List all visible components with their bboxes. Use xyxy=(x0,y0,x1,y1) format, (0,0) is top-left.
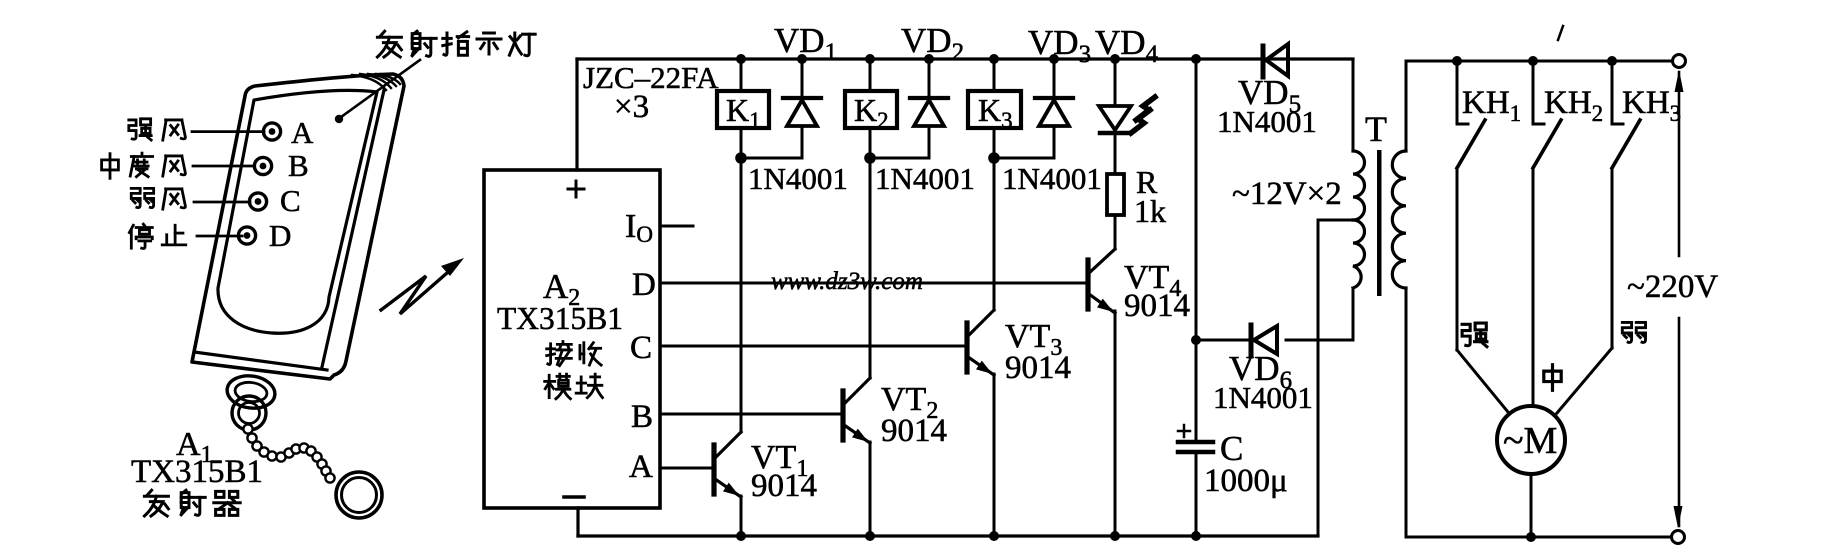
svg-text:~220V: ~220V xyxy=(1627,269,1718,305)
remote front bottom edge xyxy=(194,352,327,370)
node VT3 emitter ground xyxy=(989,531,999,541)
wire mains top bus xyxy=(1406,60,1672,63)
arrow 220V down xyxy=(1674,506,1683,528)
svg-text:1N4001: 1N4001 xyxy=(1002,161,1102,196)
svg-text:A: A xyxy=(629,449,653,485)
key ring xyxy=(336,472,382,518)
svg-text:T: T xyxy=(1365,109,1387,149)
diode VD5 xyxy=(1263,44,1288,77)
diode VD1 flyback xyxy=(783,59,821,158)
transistor VT4 xyxy=(1088,249,1115,313)
remote hanger ring outer xyxy=(225,373,277,411)
svg-text:×3: ×3 xyxy=(614,89,649,125)
wire module - pin down to ground bus xyxy=(576,508,579,536)
svg-text:1N4001: 1N4001 xyxy=(1213,380,1313,415)
svg-text:B: B xyxy=(631,399,653,435)
pin - of module xyxy=(564,495,584,499)
svg-text:9014: 9014 xyxy=(751,468,817,504)
wire VT3 emitter to ground bus xyxy=(993,374,996,536)
transistor VT3 xyxy=(967,310,994,375)
switch KH3 xyxy=(1557,61,1640,413)
svg-text:1N4001: 1N4001 xyxy=(1217,104,1317,139)
wireless lightning arrow xyxy=(381,258,464,314)
relay K2 xyxy=(845,59,897,158)
button D xyxy=(238,227,255,244)
wire mains bottom bus xyxy=(1406,536,1671,539)
remote hanger ring small xyxy=(232,396,266,430)
wire pin B to VT2 base xyxy=(661,413,843,416)
pin IO stub wire xyxy=(661,225,693,228)
svg-text:1N4001: 1N4001 xyxy=(748,161,848,196)
leader 发射指示灯 to indicator dot xyxy=(341,60,420,117)
wire junction K3-VD3 xyxy=(994,157,1054,160)
node VT4 emitter ground xyxy=(1110,531,1120,541)
node bus-VD2 xyxy=(924,54,934,64)
capacitor C 1000u xyxy=(1178,425,1213,536)
label 模块 xyxy=(545,374,603,399)
wire VT1 emitter to ground bus xyxy=(740,496,743,536)
wire from top bus down to module + pin xyxy=(575,59,578,170)
svg-text:D: D xyxy=(269,218,291,253)
op-amp U1 receiver module A2 box xyxy=(484,170,660,508)
remote top edge stack lines xyxy=(352,74,400,90)
label 接收 xyxy=(547,342,602,366)
wire R to VT4 collector xyxy=(1114,215,1117,249)
LED light arrows xyxy=(1131,97,1155,133)
transformer T primary winding xyxy=(1392,61,1406,537)
node KH3 top xyxy=(1607,56,1617,66)
leader 强风 to A xyxy=(192,130,264,133)
node bus-K1 xyxy=(736,54,746,64)
label 弱 speed xyxy=(1622,322,1645,342)
transistor VT1 xyxy=(714,432,741,497)
wire pin D to VT4 base xyxy=(661,282,1088,285)
label 中度风 xyxy=(102,153,186,178)
LED VD4 xyxy=(1099,59,1131,174)
remote transmitter A1 body outline xyxy=(192,74,404,379)
wire transformer center tap to ground bus xyxy=(1318,220,1353,536)
label 强风 xyxy=(129,119,186,140)
label 停止 xyxy=(129,224,185,248)
wire junction K2-VD2 xyxy=(870,157,929,160)
node KH2 top xyxy=(1528,56,1538,66)
wire 220V dimension line lower xyxy=(1678,318,1681,526)
wire 220V dimension line upper xyxy=(1678,72,1681,256)
wire pin A to VT1 base xyxy=(661,467,714,470)
node bus-K3 xyxy=(989,54,999,64)
button C xyxy=(249,193,266,210)
wire bottom ground bus xyxy=(578,534,1318,537)
remote inner panel with oval xyxy=(218,90,377,333)
wire top positive bus xyxy=(577,57,1353,60)
resistor R1 1k xyxy=(1107,174,1124,215)
node bus-VD3 xyxy=(1049,54,1059,64)
relay K1 xyxy=(717,59,769,158)
indicator dot on case xyxy=(335,115,343,123)
chain beads xyxy=(243,424,334,482)
diode VD6 xyxy=(1196,325,1353,355)
button A xyxy=(263,123,280,140)
svg-text:A: A xyxy=(291,115,314,150)
node KH1 top xyxy=(1452,56,1462,66)
node bus-rectifier xyxy=(1191,54,1201,64)
svg-text:C: C xyxy=(280,183,301,218)
switch KH2 xyxy=(1533,61,1561,406)
node bus-VD1 xyxy=(797,54,807,64)
node VT1 emitter ground xyxy=(736,531,746,541)
svg-text:~M: ~M xyxy=(1503,420,1557,462)
label 中 speed xyxy=(1544,365,1561,391)
node K1-VD1 junction xyxy=(735,152,747,164)
transistor VT2 xyxy=(843,378,870,443)
label 发射器 xyxy=(144,490,240,516)
diode VD2 flyback xyxy=(910,59,948,158)
label 弱风 xyxy=(131,188,185,209)
wire pin C to VT3 base xyxy=(661,345,967,348)
terminal mains bottom xyxy=(1672,531,1685,544)
svg-text:B: B xyxy=(288,148,309,183)
wire motor to bottom bus xyxy=(1530,474,1533,537)
svg-text:JZC–22FA: JZC–22FA xyxy=(583,60,719,95)
svg-text:TX315B1: TX315B1 xyxy=(131,454,263,490)
svg-text:9014: 9014 xyxy=(1124,288,1190,324)
svg-text:www.dz3w.com: www.dz3w.com xyxy=(771,268,923,295)
diode VD3 flyback xyxy=(1035,59,1073,158)
node motor bottom xyxy=(1526,532,1536,542)
remote front-side divider xyxy=(322,90,384,367)
node K2-VD2 junction xyxy=(864,152,876,164)
svg-text:C: C xyxy=(630,330,652,366)
svg-text:1N4001: 1N4001 xyxy=(875,161,975,196)
relay K3 xyxy=(968,59,1021,158)
node bus-LED xyxy=(1110,54,1120,64)
node capacitor ground xyxy=(1191,531,1201,541)
wire VT4 emitter to ground bus xyxy=(1114,311,1117,536)
label 发射指示灯 xyxy=(377,31,535,57)
arrow 220V up xyxy=(1675,70,1684,92)
motor M xyxy=(1497,406,1565,474)
wire junction K1-VD1 xyxy=(741,157,802,160)
transformer T secondary winding xyxy=(1353,59,1365,340)
label 强 speed xyxy=(1462,323,1487,347)
leader 停止 to D xyxy=(197,235,242,238)
svg-text:9014: 9014 xyxy=(881,413,947,449)
svg-text:9014: 9014 xyxy=(1005,350,1071,386)
svg-text:~12V×2: ~12V×2 xyxy=(1232,176,1342,212)
node VT2 emitter ground xyxy=(865,531,875,541)
svg-text:1000μ: 1000μ xyxy=(1204,463,1288,499)
wire VT3 collector to K3 junction xyxy=(993,158,996,310)
wire VT2 emitter to ground bus xyxy=(869,442,872,536)
button B xyxy=(254,157,271,174)
stray scan tick above KH2 xyxy=(1558,26,1563,40)
switch KH1 xyxy=(1457,61,1508,412)
svg-text:1k: 1k xyxy=(1134,193,1166,229)
node bus-K2 xyxy=(865,54,875,64)
terminal mains top xyxy=(1673,55,1686,68)
node VD6 cathode junction xyxy=(1191,335,1201,345)
wire rectifier output vertical xyxy=(1195,59,1198,442)
leader 中度风 to B xyxy=(193,165,254,168)
transformer core xyxy=(1377,150,1382,296)
svg-text:TX315B1: TX315B1 xyxy=(497,301,623,336)
svg-text:D: D xyxy=(632,267,656,303)
wire VT1 collector to K1 junction xyxy=(740,158,743,432)
pin + of module xyxy=(568,181,584,197)
node K3-VD3 junction xyxy=(988,152,1000,164)
leader 弱风 to C xyxy=(194,201,250,204)
wire VT2 collector to K2 junction xyxy=(869,158,872,378)
